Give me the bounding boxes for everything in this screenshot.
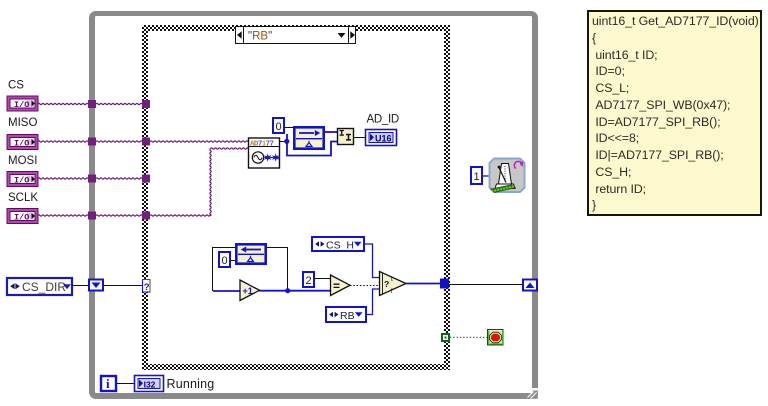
wire select to tunnel <box>406 283 441 285</box>
svg-text:MISO: MISO <box>8 117 37 129</box>
wire 1 to wait <box>482 175 489 177</box>
wire shift register to case selector <box>104 285 142 287</box>
wait until next ms multiple <box>490 159 525 193</box>
while loop border <box>89 11 538 399</box>
svg-text:=: = <box>333 279 340 293</box>
comment box code text <box>587 10 762 216</box>
increment +1 function <box>240 280 260 301</box>
svg-text:i: i <box>106 376 110 391</box>
case structure border (checkered) <box>142 25 450 370</box>
svg-text:I32: I32 <box>144 379 156 389</box>
wire junction up to feedback node 2 input <box>267 248 288 291</box>
svg-text:CS: CS <box>8 80 24 92</box>
svg-text:1: 1 <box>474 171 480 183</box>
wire i to Running I32 <box>117 383 135 385</box>
wire feedback node 1 output to join numbers <box>325 131 337 133</box>
wire 2 to equals <box>314 278 331 280</box>
case selector terminal ? <box>143 280 151 293</box>
wire junction drop to join numbers (blue) <box>287 134 337 156</box>
wire MOSI <box>38 178 142 179</box>
wire SCLK <box>38 148 248 216</box>
enum constant CS_DIR <box>7 278 72 295</box>
left shift register (down arrow) <box>89 280 103 291</box>
svg-text:AD7177: AD7177 <box>250 141 274 149</box>
wire stop button to tunnel (dotted green) <box>450 336 487 338</box>
enum constant RB <box>326 307 366 322</box>
svg-text:I/O: I/O <box>14 139 29 149</box>
wire 0 to feedback node 2 <box>231 260 236 262</box>
tunnel CS case <box>142 100 150 108</box>
junction dot 2 <box>285 288 290 293</box>
svg-text:I/O: I/O <box>14 176 29 186</box>
svg-text:U16: U16 <box>375 134 392 144</box>
I/O terminal SCLK <box>7 209 38 224</box>
tunnel CS loop <box>88 100 96 108</box>
svg-text:MOSI: MOSI <box>8 155 37 167</box>
svg-text:?: ? <box>144 282 150 293</box>
svg-text:CS_H: CS_H <box>326 240 354 252</box>
wire tunnel to right shift register <box>449 284 523 286</box>
svg-text:"RB": "RB" <box>248 31 272 43</box>
wire equals to select (dotted boolean) <box>350 285 379 287</box>
feedback node 2 (left arrow) <box>236 244 265 263</box>
while loop corner notch <box>527 388 538 399</box>
I/O terminal MISO <box>7 135 38 150</box>
wire CS (squiggly, terminal to loop tunnel) <box>38 103 142 104</box>
tunnel MISO loop <box>88 138 96 146</box>
indicator Running I32 <box>135 376 164 392</box>
tunnel SCLK case <box>142 212 150 220</box>
svg-text:f: f <box>391 288 393 295</box>
select function <box>380 272 407 296</box>
I/O terminal CS <box>7 96 38 111</box>
tunnel select output (blue) <box>440 279 449 289</box>
tunnel MISO case <box>142 138 150 146</box>
svg-text:Running: Running <box>167 377 215 391</box>
indicator AD_ID U16 <box>366 130 397 146</box>
right shift register (up arrow) <box>523 280 537 291</box>
svg-text:AD_ID: AD_ID <box>367 114 399 126</box>
junction dot 1 <box>284 139 289 144</box>
subVI AD7177 <box>249 138 280 168</box>
equals function <box>331 275 351 296</box>
wire RB to select <box>366 289 380 315</box>
tunnel boolean (green) <box>441 333 450 342</box>
wire join numbers to AD_ID <box>354 137 366 139</box>
numeric constant 2 <box>303 272 314 287</box>
I/O terminal MOSI <box>7 172 38 187</box>
enum constant CS_H <box>312 237 364 252</box>
wire CS_DIR to shift register <box>72 285 88 287</box>
numeric constant 0 (feedback init bottom) <box>219 252 230 267</box>
case selector label "RB" <box>236 27 356 44</box>
wire CS_H to select <box>364 244 380 278</box>
svg-text:0: 0 <box>222 255 228 267</box>
svg-text:I/O: I/O <box>14 213 29 223</box>
tunnel SCLK loop <box>88 212 96 220</box>
svg-text:t: t <box>391 276 393 283</box>
svg-text:0: 0 <box>276 121 282 133</box>
tunnel MOSI case <box>142 175 150 183</box>
svg-text:CS_DIR: CS_DIR <box>22 280 66 294</box>
iteration terminal i <box>101 376 116 391</box>
wire feedback node 2 output loop to +1 <box>213 248 236 292</box>
svg-text:RB: RB <box>340 310 355 322</box>
numeric constant 1 <box>471 167 482 184</box>
svg-text:+1: +1 <box>243 286 253 296</box>
svg-text:?: ? <box>384 279 389 289</box>
wire MISO <box>38 141 248 142</box>
join numbers function <box>338 129 354 145</box>
svg-text:2: 2 <box>306 275 312 287</box>
case structure interior <box>148 31 444 364</box>
wire +1 output to junction to equals <box>259 290 330 292</box>
svg-text:SCLK: SCLK <box>8 192 38 204</box>
tunnel MOSI loop <box>88 175 96 183</box>
svg-text:I/O: I/O <box>14 100 29 110</box>
numeric constant 0 (feedback init top) <box>273 118 284 133</box>
wire AD7177 output to junction <box>280 141 285 143</box>
stop button <box>488 330 504 346</box>
wire 0 to feedback node 1 <box>285 127 294 129</box>
feedback node 1 (right arrow) <box>294 127 323 148</box>
